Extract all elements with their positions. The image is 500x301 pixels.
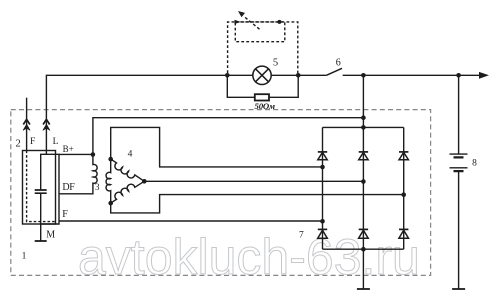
node: delta bottom vertex (108, 201, 113, 206)
diode upper-right (399, 152, 408, 160)
battery plates (450, 154, 468, 168)
F line from regulator to rectifier (59, 220, 323, 222)
rectifier 7 top bus (323, 126, 404, 128)
svg-text:7: 7 (299, 231, 304, 241)
chevron arrows on F wire (23, 119, 30, 124)
B+ wire from regulator to node (59, 153, 93, 155)
svg-text:4: 4 (128, 150, 133, 160)
svg-text:50Ом: 50Ом (255, 101, 276, 111)
svg-text:6: 6 (336, 57, 341, 68)
svg-text:DF: DF (62, 182, 75, 193)
diode upper-middle (359, 152, 368, 160)
phase A wire (111, 127, 323, 166)
regulator inner terminal box (41, 154, 59, 224)
stator delta 4: top side (111, 159, 145, 181)
node: B+ junction at field winding (91, 152, 96, 157)
resistor 50Om box (255, 94, 269, 100)
svg-text:avtokluch-63.ru: avtokluch-63.ru (78, 229, 420, 285)
node: phase B to right column (401, 192, 406, 197)
diode lower-left (318, 229, 328, 238)
svg-text:2: 2 (16, 139, 21, 150)
ground bar under regulator (35, 240, 47, 242)
svg-text:F: F (30, 137, 35, 147)
node: B+ bus to output column (361, 115, 366, 120)
lamp 5 (253, 66, 271, 84)
node: delta top vertex (108, 157, 113, 162)
arrowhead at bus end (479, 72, 489, 79)
regulator dashed internal outline (27, 151, 56, 222)
phase B wire (111, 195, 404, 213)
node: lamp branch left junction (225, 73, 230, 78)
capacitor plates (35, 190, 47, 193)
ground bar battery (452, 288, 465, 290)
svg-text:F: F (62, 209, 68, 220)
rectifier middle column / output (362, 75, 364, 249)
rectifier left column (322, 127, 324, 249)
M wire to ground (40, 224, 42, 241)
rectifier right column (403, 127, 405, 249)
switch 6 lever (326, 68, 342, 75)
node: rectifier top bus centre (361, 125, 366, 130)
phase C wire (144, 180, 363, 182)
F stub wire (26, 98, 28, 151)
arrow on indicator top edge (235, 20, 241, 24)
indicator dashed box inner (235, 22, 284, 42)
ground wire under rectifier (362, 249, 364, 289)
wire: bus right of switch with arrow (343, 74, 479, 76)
node: phase A to left column (320, 165, 325, 170)
diode lower-middle (359, 229, 369, 238)
field winding 3 (59, 155, 97, 194)
ground bar rectifier (357, 288, 370, 290)
battery 8 wires (458, 75, 460, 289)
top bus wire (46, 75, 326, 154)
node: delta right vertex (142, 179, 147, 184)
resistor branch wire (227, 75, 298, 97)
node: F line to left column (320, 219, 325, 224)
regulator 2 outer box (23, 151, 56, 225)
indicator dashed box outer (228, 22, 298, 73)
svg-text:8: 8 (472, 159, 477, 169)
diode upper-left (318, 152, 327, 160)
node: rectifier output on bus (361, 73, 366, 78)
svg-text:L: L (53, 137, 59, 147)
node: phase C to middle column (361, 179, 366, 184)
stator delta 4: left side (106, 159, 111, 203)
svg-text:1: 1 (22, 251, 27, 261)
diagonal dashed arrow (245, 17, 260, 29)
rectifier bottom bus (323, 248, 404, 250)
svg-text:5: 5 (273, 58, 278, 69)
stator delta 4: bottom side (111, 181, 145, 203)
node: lamp branch right junction (296, 73, 301, 78)
svg-text:B+: B+ (63, 144, 74, 154)
node dot on indicator top edge (277, 20, 281, 24)
svg-text:3: 3 (95, 182, 100, 192)
svg-text:M: M (46, 229, 55, 240)
B+ riser and bus (93, 118, 364, 155)
node: battery tap on bus (456, 73, 461, 78)
generator dashed box 1 (11, 110, 431, 276)
diode lower-right (399, 229, 409, 238)
node: rectifier bottom bus centre (361, 247, 366, 252)
chevron arrows on L wire (43, 119, 50, 124)
